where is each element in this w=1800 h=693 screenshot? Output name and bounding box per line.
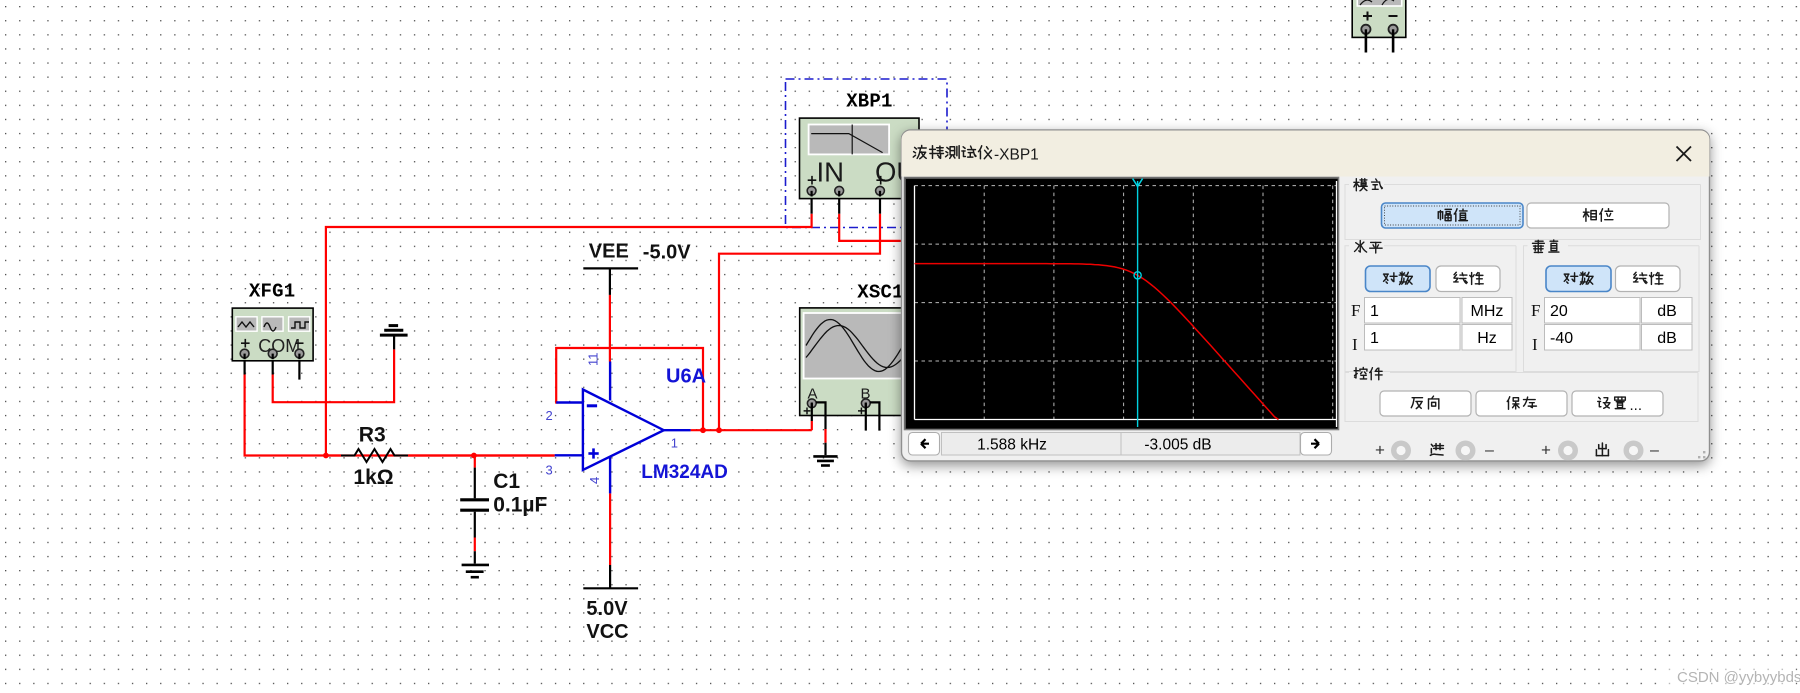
svg-text:XSC1: XSC1 <box>857 281 903 303</box>
svg-text:4: 4 <box>587 477 602 484</box>
svg-text:+: + <box>1541 441 1551 460</box>
svg-text:COM: COM <box>258 336 300 356</box>
svg-text:XBP1: XBP1 <box>846 90 892 112</box>
svg-text:1: 1 <box>1370 303 1379 320</box>
svg-text:R3: R3 <box>359 424 386 447</box>
svg-text:dB: dB <box>1657 303 1677 320</box>
svg-text:Hz: Hz <box>1477 330 1497 347</box>
svg-text:-40: -40 <box>1550 330 1573 347</box>
svg-text:–: – <box>1485 442 1494 459</box>
svg-text:VCC: VCC <box>586 621 628 643</box>
svg-text:C1: C1 <box>493 470 520 493</box>
svg-text:LM324AD: LM324AD <box>641 462 728 483</box>
svg-text:+: + <box>1375 441 1385 460</box>
svg-text:-5.0V: -5.0V <box>643 241 691 263</box>
svg-text:11: 11 <box>586 353 601 367</box>
svg-text:5.0V: 5.0V <box>586 598 628 620</box>
svg-text:U6A: U6A <box>666 366 706 388</box>
svg-text:VEE: VEE <box>589 240 629 262</box>
svg-text:...: ... <box>1630 397 1643 414</box>
svg-text:I: I <box>1352 335 1358 354</box>
svg-text:1: 1 <box>1370 330 1379 347</box>
svg-text:I: I <box>1532 335 1538 354</box>
svg-text:-XBP1: -XBP1 <box>994 147 1039 164</box>
svg-text:–: – <box>1650 442 1659 459</box>
svg-text:dB: dB <box>1657 330 1677 347</box>
svg-text:2: 2 <box>546 408 553 423</box>
svg-text:CSDN @yybyybds: CSDN @yybyybds <box>1677 669 1800 686</box>
svg-text:IN: IN <box>817 156 845 187</box>
svg-text:-3.005 dB: -3.005 dB <box>1144 437 1211 454</box>
svg-text:20: 20 <box>1550 303 1568 320</box>
svg-text:XFG1: XFG1 <box>249 281 295 303</box>
svg-text:F: F <box>1531 301 1540 320</box>
svg-text:1.588 kHz: 1.588 kHz <box>977 437 1047 454</box>
svg-text:0.1µF: 0.1µF <box>493 493 547 516</box>
svg-text:F: F <box>1351 301 1360 320</box>
svg-text:1kΩ: 1kΩ <box>353 466 393 489</box>
svg-text:MHz: MHz <box>1471 303 1504 320</box>
svg-text:1: 1 <box>671 436 678 451</box>
svg-text:3: 3 <box>546 462 553 477</box>
